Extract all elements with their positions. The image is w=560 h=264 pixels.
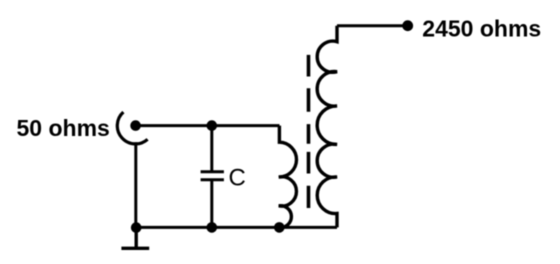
- svg-text:2450 ohms: 2450 ohms: [422, 16, 541, 42]
- node: junction bottom left: [131, 222, 142, 233]
- node: output terminal dot: [402, 20, 413, 31]
- inductor L1 primary winding: [279, 126, 297, 228]
- node: junction top of capacitor: [207, 120, 218, 131]
- node: junction bottom of primary: [274, 222, 285, 233]
- transformer core dashed line: [307, 55, 311, 208]
- node: junction bottom of capacitor: [207, 222, 218, 233]
- svg-text:50 ohms: 50 ohms: [17, 115, 110, 141]
- wire: bottom rail: [136, 226, 337, 229]
- inductor L2 secondary winding: [317, 26, 337, 228]
- wire: top right to terminal: [337, 24, 408, 27]
- ground: [121, 227, 149, 248]
- node: source terminal dot: [130, 120, 141, 131]
- svg-text:C: C: [229, 165, 246, 192]
- connector arc (source terminal): [117, 112, 147, 144]
- wire: top rail from source to primary: [136, 124, 280, 127]
- wire: source vertical down: [134, 142, 137, 227]
- capacitor C: [201, 126, 224, 228]
